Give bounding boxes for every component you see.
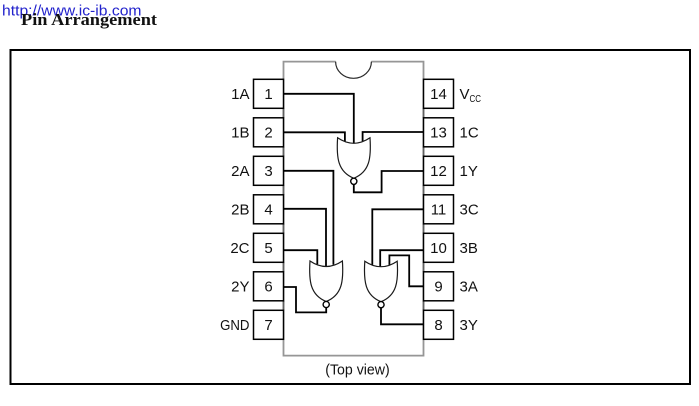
pin 6 box <box>254 272 284 301</box>
svg-text:GND: GND <box>220 317 250 334</box>
svg-text:5: 5 <box>264 240 272 257</box>
wire gate U1A output to pin12 <box>354 171 424 192</box>
svg-text:2Y: 2Y <box>231 279 249 296</box>
svg-text:(Top view): (Top view) <box>325 361 390 378</box>
nor gate U1C <box>364 261 397 308</box>
svg-text:1: 1 <box>264 86 272 103</box>
wire pin10 to gate U1C middle input <box>380 250 423 267</box>
svg-text:1A: 1A <box>231 86 249 103</box>
pin 1 box <box>254 79 284 108</box>
wire pin2 to gate U1A left input <box>284 132 345 142</box>
svg-text:3B: 3B <box>460 240 478 257</box>
wire pin4 to gate U1B middle input <box>284 209 327 267</box>
svg-text:1C: 1C <box>460 125 479 142</box>
svg-text:1B: 1B <box>231 125 249 142</box>
pin 9 box <box>424 272 454 301</box>
pin 14 box <box>424 79 454 108</box>
svg-text:7: 7 <box>264 317 272 334</box>
wire pin1 to gate U1A middle input <box>284 94 354 144</box>
pin 8 box <box>424 310 454 339</box>
pin 7 box <box>254 310 284 339</box>
svg-text:3C: 3C <box>460 202 479 219</box>
pin 3 box <box>254 156 284 185</box>
nor gate U1A <box>337 138 370 185</box>
pin 2 box <box>254 118 284 147</box>
svg-text:12: 12 <box>430 163 447 180</box>
pin 12 box <box>424 156 454 185</box>
svg-text:3Y: 3Y <box>460 317 478 334</box>
IC body U1 (DIP-14 package, top view) <box>284 62 424 356</box>
wire pin5 to gate U1B left input <box>284 250 318 264</box>
svg-text:1Y: 1Y <box>460 163 478 180</box>
pin 14 name VCC <box>460 86 482 105</box>
pin 11 box <box>424 195 454 224</box>
svg-text:6: 6 <box>264 279 272 296</box>
svg-text:Pin Arrangement: Pin Arrangement <box>21 10 158 29</box>
wire pin3 to gate U1B right input <box>284 171 334 265</box>
svg-text:10: 10 <box>430 240 447 257</box>
wire gate U1C output to pin8 <box>381 308 424 325</box>
svg-text:2: 2 <box>264 125 272 142</box>
notch (pin-1 index) on IC body <box>336 62 372 79</box>
svg-text:2C: 2C <box>230 240 249 257</box>
svg-text:3: 3 <box>264 163 272 180</box>
svg-text:V: V <box>460 86 470 103</box>
pin 13 box <box>424 118 454 147</box>
svg-text:14: 14 <box>430 86 447 103</box>
wire pin11 to gate U1C left input <box>372 209 423 265</box>
svg-text:CC: CC <box>470 94 482 105</box>
svg-text:9: 9 <box>434 279 442 296</box>
svg-text:8: 8 <box>434 317 442 334</box>
svg-text:11: 11 <box>431 202 447 219</box>
svg-text:3A: 3A <box>460 279 478 296</box>
wire pin13 to gate U1A right input <box>363 132 424 141</box>
pin 5 box <box>254 233 284 262</box>
pin 4 box <box>254 195 284 224</box>
svg-text:2A: 2A <box>231 163 249 180</box>
wire pin9 to gate U1C right input <box>389 255 423 286</box>
pin 10 box <box>424 233 454 262</box>
svg-text:4: 4 <box>264 202 272 219</box>
svg-text:13: 13 <box>430 125 447 142</box>
nor gate U1B <box>310 261 343 308</box>
svg-text:2B: 2B <box>231 202 249 219</box>
wire gate U1B output to pin6 <box>284 287 327 312</box>
